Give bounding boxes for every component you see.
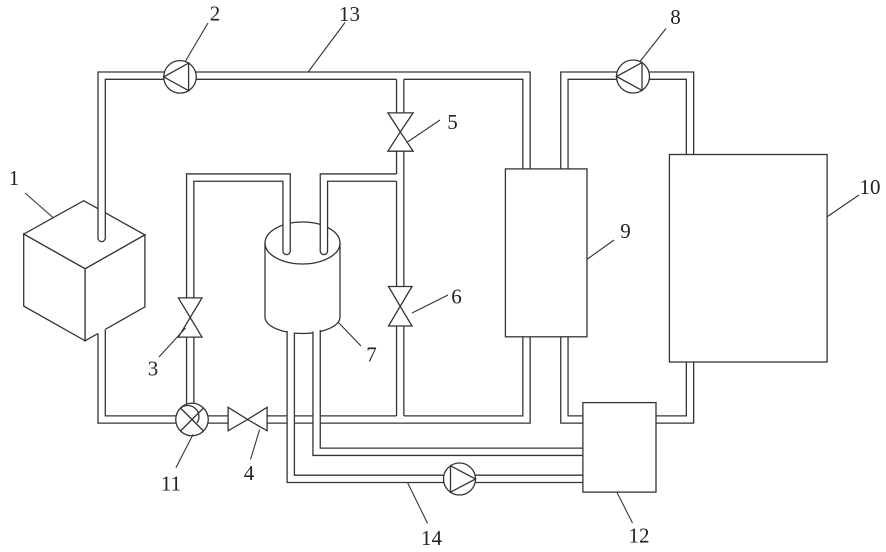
valve 5 bbox=[388, 113, 413, 151]
box 10 bbox=[669, 155, 827, 363]
leader 8 bbox=[640, 29, 666, 62]
valve 6 bbox=[389, 287, 413, 327]
pipe (cylinder7 bottom to box12) bbox=[313, 324, 585, 455]
svg-text:8: 8 bbox=[670, 5, 681, 29]
valve 4 bbox=[228, 407, 267, 431]
svg-text:12: 12 bbox=[629, 524, 650, 548]
svg-text:14: 14 bbox=[421, 526, 443, 550]
box 1 (3D cube tank) bbox=[24, 201, 145, 341]
label 4 bbox=[244, 461, 255, 485]
pipe (branch with valve5 and valve6) bbox=[397, 78, 404, 421]
label 8 bbox=[670, 5, 681, 29]
label 3 bbox=[148, 356, 159, 380]
pipe (box1 bottom to pump11, valve4, box9 bottom-left) bbox=[98, 327, 530, 423]
label 13 bbox=[339, 2, 360, 26]
cylinder 7 (tank) bbox=[265, 222, 340, 334]
label 10 bbox=[860, 175, 881, 199]
svg-text:6: 6 bbox=[451, 284, 462, 308]
leader 2 bbox=[186, 23, 209, 61]
label 11 bbox=[161, 472, 181, 496]
leader 4 bbox=[251, 430, 260, 460]
pipe (box9 top to pump8 to box10 top) bbox=[561, 72, 694, 170]
leader 14 bbox=[408, 483, 428, 524]
label 7 bbox=[366, 343, 377, 367]
pump 2 bbox=[164, 61, 197, 94]
svg-text:9: 9 bbox=[620, 219, 631, 243]
pump 8 bbox=[617, 60, 650, 93]
pipe (cylinder7 left to valve3 to pump11) bbox=[187, 174, 291, 411]
svg-text:2: 2 bbox=[210, 1, 221, 25]
leader 1 bbox=[25, 193, 53, 218]
box 9 bbox=[505, 169, 587, 337]
svg-text:13: 13 bbox=[339, 2, 360, 26]
valve 11 (circle with cross) bbox=[176, 403, 209, 436]
svg-text:7: 7 bbox=[366, 343, 377, 367]
leader 10 bbox=[828, 195, 860, 217]
label 14 bbox=[421, 526, 443, 550]
svg-text:1: 1 bbox=[9, 166, 20, 190]
pipe (box9 bottom to box12) bbox=[561, 337, 585, 424]
pipe (box12 to box10 bottom) bbox=[654, 362, 694, 424]
leader 5 bbox=[408, 120, 441, 142]
pipe 14 (cylinder7 bottom through pump to box12) bbox=[287, 324, 585, 483]
leader 3 bbox=[159, 328, 186, 357]
svg-text:3: 3 bbox=[148, 356, 159, 380]
label 1 bbox=[9, 166, 20, 190]
leader 13 bbox=[309, 23, 346, 72]
label 5 bbox=[447, 110, 458, 134]
svg-text:10: 10 bbox=[860, 175, 881, 199]
leader 12 bbox=[617, 493, 633, 524]
leader 7 bbox=[338, 322, 361, 346]
leader 6 bbox=[412, 295, 448, 313]
svg-text:5: 5 bbox=[447, 110, 458, 134]
label 9 bbox=[620, 219, 631, 243]
svg-text:11: 11 bbox=[161, 472, 181, 496]
label 12 bbox=[629, 524, 650, 548]
svg-text:4: 4 bbox=[244, 461, 255, 485]
pump (on pipe 14) bbox=[444, 463, 476, 495]
valve 3 bbox=[178, 298, 202, 337]
label 2 bbox=[210, 1, 221, 25]
leader 9 bbox=[588, 240, 615, 259]
pipe 13 (box1 top to pump2 to box9 top-left) bbox=[98, 72, 530, 242]
pipe (cylinder7 right to branch) bbox=[320, 174, 398, 255]
label 6 bbox=[451, 284, 462, 308]
box 12 bbox=[583, 403, 656, 493]
leader 11 bbox=[176, 434, 193, 467]
